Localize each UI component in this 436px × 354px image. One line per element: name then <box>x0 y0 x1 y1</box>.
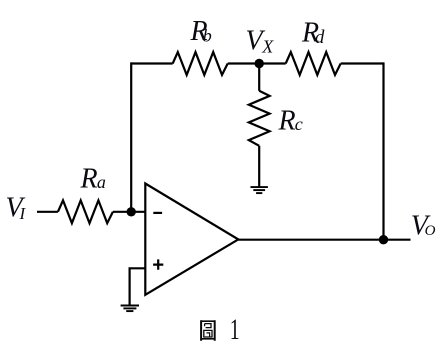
resistor Rc <box>249 91 270 146</box>
svg-text:d: d <box>315 27 325 48</box>
ground at non-inverting input <box>121 306 139 312</box>
svg-text:O: O <box>425 223 436 239</box>
svg-text:R: R <box>278 105 296 136</box>
wire non-inverting input to ground <box>130 268 146 305</box>
resistor Rb <box>173 52 228 75</box>
op-amp minus sign <box>153 212 162 214</box>
wire from Rc to ground <box>258 146 260 187</box>
node VO junction dot <box>379 235 388 244</box>
wire from node VX down to Rc <box>258 64 260 91</box>
wire right vertical down to output node <box>382 62 384 239</box>
resistor Rd <box>286 52 341 75</box>
wire output from op-amp to VO <box>238 239 410 241</box>
wire left vertical feedback down to inverting node <box>130 62 132 211</box>
wire from Rb to node VX <box>228 62 260 64</box>
node at inverting input junction dot <box>127 207 136 216</box>
wire top-left horizontal from left corner to Rb <box>131 62 173 64</box>
wire input VI to Ra <box>37 211 58 213</box>
wire from Rd to right corner <box>341 62 384 64</box>
svg-text:X: X <box>261 36 274 56</box>
wire from Ra to inverting node <box>113 211 145 213</box>
resistor Ra <box>58 200 113 223</box>
op-amp plus sign <box>153 259 163 269</box>
op-amp U1 triangle <box>145 184 238 295</box>
svg-text:1: 1 <box>230 313 240 346</box>
svg-text:b: b <box>203 26 212 46</box>
ground below Rc <box>251 187 268 193</box>
node VX junction dot <box>255 59 264 68</box>
svg-text:a: a <box>97 172 106 192</box>
svg-text:c: c <box>295 114 303 134</box>
svg-text:R: R <box>80 163 98 194</box>
caption figure glyph (drawn CJK 圖) <box>201 320 215 341</box>
wire from node VX to Rd <box>259 62 286 64</box>
caption figure number 1 <box>230 313 240 346</box>
